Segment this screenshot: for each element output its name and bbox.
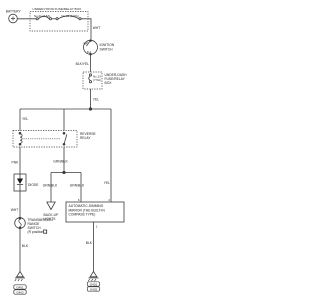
svg-text:GRN/BLK: GRN/BLK (43, 184, 58, 188)
svg-text:IG1: IG1 (87, 50, 92, 54)
svg-text:YEL: YEL (104, 181, 110, 185)
svg-text:2: 2 (108, 198, 110, 202)
svg-text:WHT: WHT (93, 26, 101, 30)
svg-text:G401: G401 (16, 285, 24, 289)
svg-text:DIODE: DIODE (28, 183, 39, 187)
svg-text:GRN/BLK: GRN/BLK (53, 159, 68, 163)
svg-text:(R position ): (R position ) (28, 230, 48, 234)
svg-text:G401: G401 (90, 282, 98, 286)
svg-text:G402: G402 (90, 287, 98, 291)
svg-text:No.35 (100A): No.35 (100A) (62, 14, 79, 18)
svg-text:BLK/YEL: BLK/YEL (76, 62, 90, 66)
svg-text:BOX: BOX (105, 81, 113, 85)
svg-text:RELAY: RELAY (80, 136, 91, 140)
svg-text:YEL: YEL (93, 98, 99, 102)
svg-text:BAT: BAT (84, 42, 89, 46)
svg-text:PNK: PNK (12, 161, 20, 165)
svg-text:BATTERY: BATTERY (6, 10, 22, 14)
svg-text:YEL: YEL (22, 117, 28, 121)
svg-text:GRN/BLK: GRN/BLK (70, 184, 85, 188)
svg-text:BLK: BLK (86, 241, 93, 245)
svg-text:G402: G402 (16, 290, 24, 294)
svg-text:1: 1 (96, 225, 98, 229)
svg-text:UNDER-HOOD FUSE/RELAY BOX: UNDER-HOOD FUSE/RELAY BOX (33, 7, 82, 11)
svg-text:No.21 (7.5A): No.21 (7.5A) (34, 14, 50, 18)
svg-text:WHT: WHT (11, 208, 19, 212)
svg-text:BLK: BLK (22, 244, 29, 248)
svg-text:(7.5A): (7.5A) (93, 78, 101, 82)
svg-text:SWITCH: SWITCH (100, 47, 114, 51)
svg-text:LIGHTS: LIGHTS (44, 217, 57, 221)
svg-text:6: 6 (78, 198, 80, 202)
svg-text:COMPASS TYPE): COMPASS TYPE) (69, 212, 96, 216)
